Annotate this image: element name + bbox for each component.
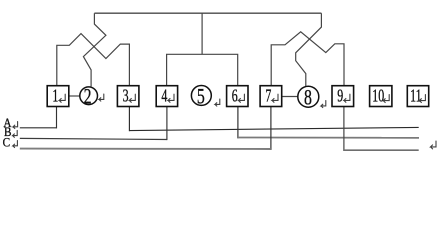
svg-text:4: 4 <box>161 86 167 106</box>
phase line B right segment <box>238 137 419 139</box>
voltage circle 2 <box>80 87 98 105</box>
wire terminal 6 drop <box>237 106 239 138</box>
return mark in box 11 <box>419 95 425 103</box>
wire tee to terminals 4 and 6 <box>167 54 238 85</box>
wire bus to circle 8 <box>296 13 322 86</box>
return mark in box 1 <box>59 94 65 102</box>
return mark after label C <box>13 141 18 148</box>
return mark after circle 2 <box>99 94 104 101</box>
terminal box 7 <box>260 86 282 107</box>
terminal box 6 <box>227 86 248 107</box>
terminal box 1 <box>47 86 69 107</box>
phase line C load side <box>344 149 419 151</box>
wire terminal 3 drop <box>128 106 130 131</box>
return mark in box 3 <box>129 94 135 102</box>
svg-text:3: 3 <box>123 86 129 106</box>
return mark after label B <box>13 130 18 137</box>
wire terminal 1 drop <box>56 106 58 128</box>
svg-text:10: 10 <box>372 86 384 106</box>
svg-text:9: 9 <box>337 86 343 106</box>
terminal box 10 <box>370 86 392 107</box>
return mark after circle 8 <box>321 101 326 108</box>
terminal box 4 <box>156 86 177 107</box>
voltage circle 8 <box>298 86 319 107</box>
return mark in box 7 <box>272 94 278 102</box>
voltage circle 5 <box>191 86 211 106</box>
terminal box 3 <box>117 86 138 107</box>
wire terminal 9 drop <box>343 106 345 151</box>
svg-text:C: C <box>3 135 11 150</box>
link terminal 1 to circle 2 <box>69 95 80 97</box>
return mark after label A <box>13 122 18 129</box>
return mark end of line <box>431 141 437 149</box>
wire bus to circle 2 <box>83 13 106 86</box>
return mark in box 10 <box>383 95 389 103</box>
phase line B left segment <box>20 138 167 139</box>
link terminal 7 to circle 8 <box>282 96 298 98</box>
svg-text:2: 2 <box>84 85 92 109</box>
terminal box 11 <box>407 86 428 107</box>
svg-text:11: 11 <box>410 86 421 106</box>
wire top bus <box>94 12 321 14</box>
svg-text:6: 6 <box>232 86 238 106</box>
wire bus drop to tee <box>201 13 203 54</box>
phase line A label segment <box>20 127 57 129</box>
terminal box 9 <box>332 86 354 107</box>
wire terminal 7 to terminal 9 <box>271 32 344 86</box>
return marks group <box>13 94 436 149</box>
svg-text:7: 7 <box>265 86 271 106</box>
svg-text:8: 8 <box>304 86 312 110</box>
return mark in box 4 <box>168 94 174 102</box>
wire terminal 4 drop <box>166 106 168 140</box>
return mark in box 9 <box>344 94 350 102</box>
phase line A load side <box>129 127 418 130</box>
return mark in box 6 <box>238 94 244 102</box>
svg-text:5: 5 <box>197 85 205 109</box>
return mark after circle 5 <box>215 99 220 106</box>
wire terminal 1 to terminal 3 <box>57 34 130 86</box>
phase line C left segment <box>20 148 271 150</box>
wire terminal 7 drop <box>270 106 272 149</box>
svg-text:1: 1 <box>52 86 58 106</box>
